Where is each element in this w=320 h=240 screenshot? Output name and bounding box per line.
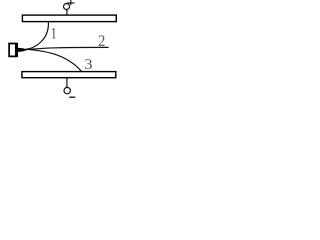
trajectory 3 — [25, 49, 82, 71]
electron gun — [9, 43, 28, 57]
plus polarity mark — [67, 0, 74, 5]
wire top lead — [66, 9, 68, 15]
plate P2 (bottom) — [22, 72, 116, 78]
label 3 — [85, 59, 92, 69]
label 2 — [99, 35, 105, 46]
wire bottom lead — [66, 78, 68, 88]
terminal T2 (bottom) — [64, 87, 70, 93]
terminal T1 (top) — [64, 4, 70, 10]
label 1 — [52, 28, 56, 38]
trajectory 1 — [25, 22, 49, 50]
minus polarity mark — [69, 96, 75, 98]
plate P1 (top) — [22, 15, 116, 22]
trajectory 2 — [25, 47, 109, 49]
